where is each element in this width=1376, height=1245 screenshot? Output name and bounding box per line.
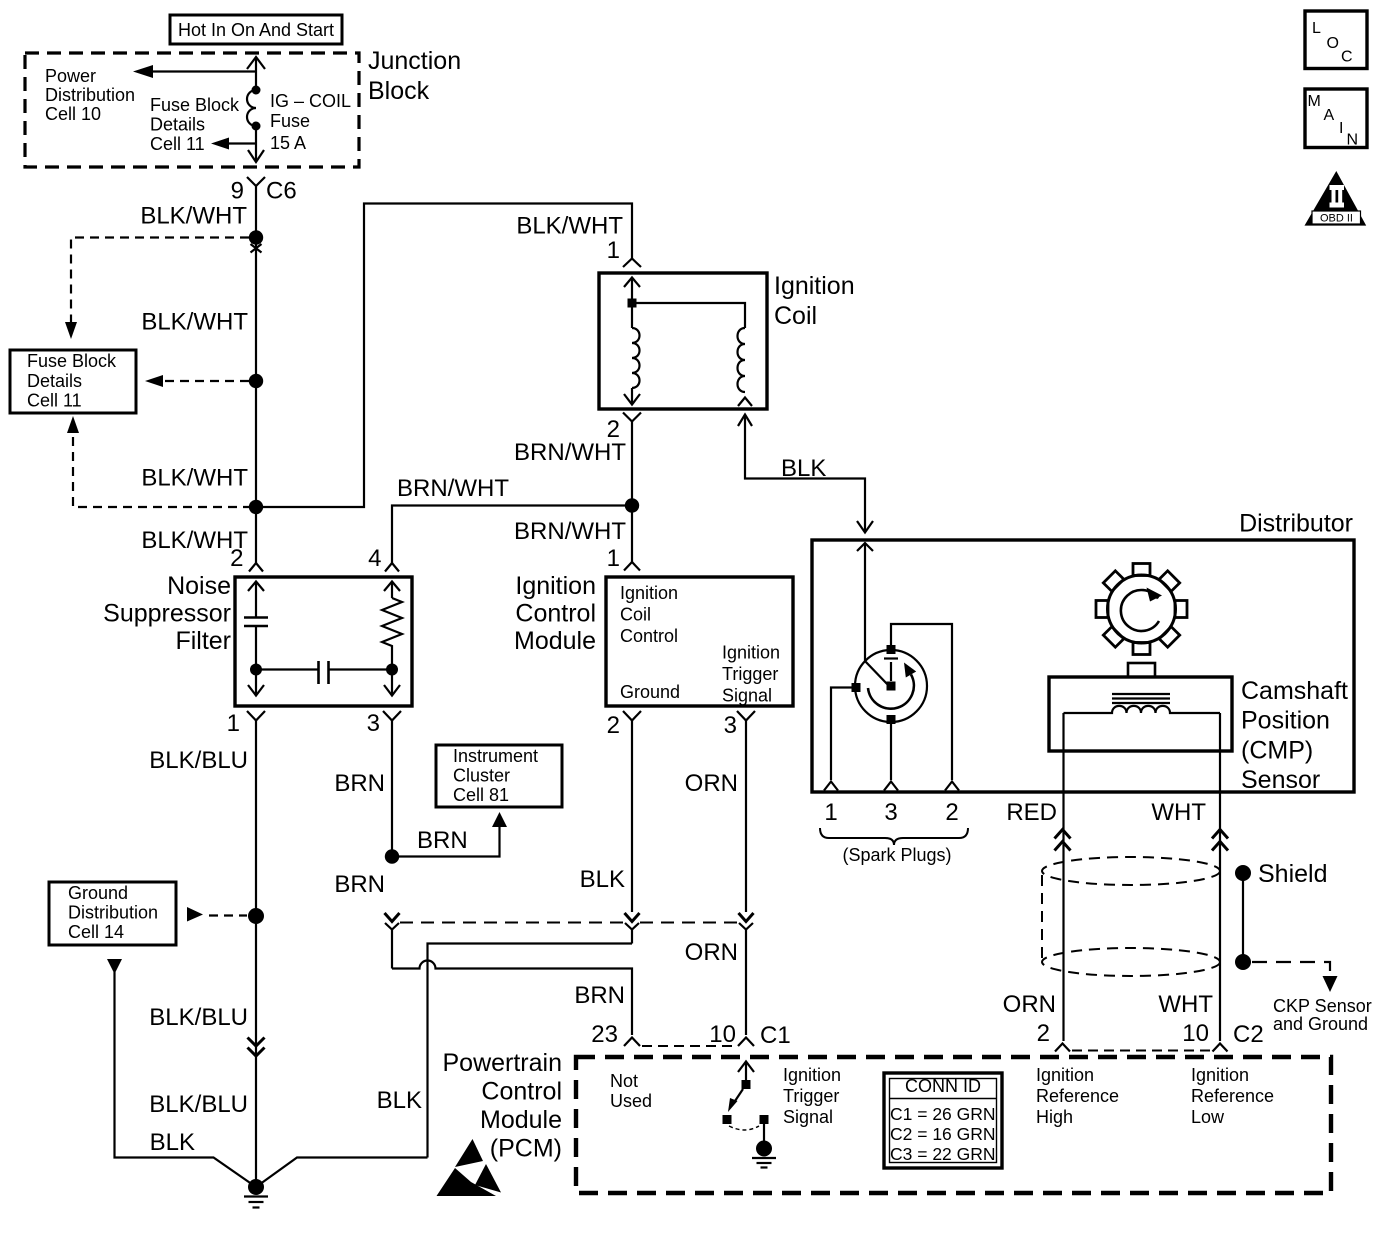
hot-feed label box "Hot In On And Start" (170, 15, 342, 44)
svg-text:BLK/WHT: BLK/WHT (516, 213, 623, 240)
svg-text:Position: Position (1241, 707, 1330, 735)
inline connector chevrons RED wire (1055, 830, 1071, 851)
PCM name (443, 1049, 563, 1163)
svg-text:CONN ID: CONN ID (905, 1076, 981, 1096)
PCM label Not Used (610, 1071, 652, 1111)
svg-text:Module: Module (480, 1106, 562, 1134)
node: BRN/WHT splice dot (625, 498, 639, 512)
ORN connector chevrons (739, 913, 754, 1035)
shield drain wire with dots (1235, 865, 1251, 970)
svg-text:Hot In On And Start: Hot In On And Start (178, 20, 334, 40)
svg-text:1: 1 (607, 237, 620, 264)
wire: main BLK/WHT vertical (255, 238, 257, 563)
wire: fuse output with down arrow inside junction block (248, 126, 264, 162)
wire: branch to Power Distribution (filled arrow left) (45, 65, 256, 124)
svg-text:Noise: Noise (167, 572, 231, 600)
dashed reference: to Fuse Block Details box (upper) (65, 238, 249, 340)
svg-text:O: O (1327, 35, 1339, 52)
svg-text:Powertrain: Powertrain (443, 1049, 563, 1077)
Ground Distribution reference box (49, 882, 176, 945)
inline connector chevrons on main BLK/BLU wire (248, 1038, 265, 1057)
ignition coil secondary output chevron (738, 398, 752, 407)
svg-text:Ignition: Ignition (722, 643, 780, 663)
svg-text:Module: Module (514, 627, 596, 655)
noise filter pin 1 (Y) (227, 710, 265, 1187)
svg-text:ORN: ORN (1003, 991, 1056, 1018)
PCM label Ignition Trigger Signal (783, 1065, 841, 1127)
ignition coil primary winding (632, 328, 640, 388)
ICM internal labels (620, 583, 780, 706)
svg-text:Ignition: Ignition (515, 572, 596, 600)
wire: BLK/WHT branch to ignition coil (riser) (256, 204, 632, 508)
noise filter pin 4 arrow (368, 545, 399, 572)
svg-text:Fuse Block: Fuse Block (150, 95, 240, 115)
svg-text:Block: Block (368, 77, 430, 105)
svg-text:BLK: BLK (580, 866, 625, 893)
rotor bottom contact + wire to spark 3 (887, 715, 896, 780)
rotor left contact + wire to spark 1 (831, 683, 861, 780)
svg-text:2: 2 (607, 712, 620, 739)
svg-text:Signal: Signal (722, 686, 772, 706)
svg-text:(PCM): (PCM) (490, 1135, 562, 1163)
svg-text:BRN: BRN (417, 827, 468, 854)
svg-text:15 A: 15 A (270, 133, 306, 153)
svg-text:BRN/WHT: BRN/WHT (514, 518, 626, 545)
junction block inner label Fuse Block Details Cell 11 (150, 95, 240, 154)
ICM name (514, 572, 596, 655)
ICM box (606, 577, 793, 706)
ignition coil primary wire with up arrow (624, 278, 745, 329)
svg-text:Sensor: Sensor (1241, 766, 1320, 794)
svg-text:C: C (1341, 49, 1353, 66)
wire: BLK from coil secondary to distributor (738, 415, 873, 533)
svg-text:Cluster: Cluster (453, 766, 510, 786)
svg-text:Control: Control (515, 600, 596, 628)
svg-text:Details: Details (27, 371, 82, 391)
node: splice dot at BLK/WHT to fuse block ref (249, 230, 263, 244)
svg-text:1: 1 (824, 799, 837, 826)
ground symbol (244, 1197, 268, 1208)
gear to CMP neck (1128, 663, 1155, 677)
connector C2 pin 2 (1037, 1020, 1070, 1052)
CMP name (1241, 677, 1348, 794)
connector C1 pin 10 (709, 1021, 790, 1049)
svg-text:Ground: Ground (68, 883, 128, 903)
svg-text:WHT: WHT (1158, 991, 1213, 1018)
svg-text:(CMP): (CMP) (1241, 736, 1313, 764)
svg-text:M: M (1308, 93, 1321, 110)
dashed reference from lower splice up into Fuse Block Details bottom (67, 416, 263, 514)
svg-text:3: 3 (724, 712, 737, 739)
ignition coil box (599, 273, 767, 409)
svg-text:Instrument: Instrument (453, 746, 538, 766)
Instrument Cluster reference box (436, 745, 562, 807)
svg-text:Cell 11: Cell 11 (27, 391, 82, 411)
svg-text:BRN/WHT: BRN/WHT (397, 475, 509, 502)
svg-text:1: 1 (607, 545, 620, 572)
spark plugs brace (820, 828, 968, 845)
svg-text:10: 10 (709, 1021, 736, 1048)
noise filter pin 3 (Y) (367, 710, 401, 857)
ignition coil name (774, 272, 855, 330)
svg-text:9: 9 (231, 178, 244, 205)
svg-text:CKP Sensor: CKP Sensor (1273, 996, 1372, 1016)
svg-text:Power: Power (45, 66, 96, 86)
spark plug chevrons at distributor bottom (824, 782, 959, 791)
svg-text:Trigger: Trigger (783, 1086, 839, 1106)
ICM pin 3 (Y) (724, 711, 755, 912)
svg-text:C3 = 22 GRN: C3 = 22 GRN (890, 1144, 996, 1164)
inline connector x-mark below splice (251, 244, 262, 253)
svg-text:C1: C1 (760, 1022, 791, 1049)
svg-text:BLK/WHT: BLK/WHT (141, 309, 248, 336)
junction block name (368, 47, 461, 105)
rotor center contact (887, 682, 896, 691)
PCM dashed enclosure (576, 1057, 1331, 1193)
rotor top contact + wire to spark 2 (884, 624, 952, 780)
svg-text:BRN: BRN (334, 770, 385, 797)
svg-text:Ignition: Ignition (783, 1065, 841, 1085)
svg-text:Used: Used (610, 1091, 652, 1111)
shield dashed left side (1041, 875, 1043, 958)
svg-text:C1 = 26 GRN: C1 = 26 GRN (890, 1104, 996, 1124)
svg-text:C2: C2 (1233, 1021, 1264, 1048)
node: BRN splice dot (385, 849, 399, 863)
svg-text:Filter: Filter (175, 627, 231, 655)
svg-text:Distributor: Distributor (1239, 510, 1353, 538)
dashed: shield to CKP sensor ground (arrow down) (1252, 962, 1338, 992)
svg-text:C6: C6 (266, 178, 297, 205)
LOC symbol box (1305, 11, 1367, 69)
node: splice dot with dashed arrow to Fuse Block Details right side (145, 374, 263, 388)
svg-text:Cell 11: Cell 11 (150, 134, 205, 154)
BRN connector chevrons (385, 913, 400, 969)
svg-text:Details: Details (150, 115, 205, 135)
junction block dashed enclosure (25, 53, 359, 167)
svg-text:BLK: BLK (377, 1087, 422, 1114)
svg-text:Junction: Junction (368, 47, 461, 75)
svg-text:WHT: WHT (1151, 799, 1206, 826)
svg-text:Coil: Coil (620, 605, 651, 625)
svg-text:2: 2 (945, 799, 958, 826)
connector C1 pin 23 (591, 1021, 640, 1048)
svg-text:Low: Low (1191, 1107, 1225, 1127)
noise filter internal node left (250, 664, 262, 676)
svg-text:Reference: Reference (1191, 1086, 1274, 1106)
dashed reference: ground distribution to main wire (187, 907, 264, 924)
svg-text:10: 10 (1182, 1020, 1209, 1047)
svg-text:Cell 14: Cell 14 (68, 922, 124, 942)
OBD II symbol (1305, 171, 1367, 226)
series capacitor between legs (256, 661, 392, 684)
svg-text:Distribution: Distribution (45, 85, 135, 105)
svg-text:Ignition: Ignition (620, 583, 678, 603)
rotor rotation arrow (868, 663, 916, 709)
inline connector chevrons WHT wire (1212, 830, 1228, 851)
svg-text:A: A (1324, 107, 1335, 124)
svg-text:2: 2 (230, 545, 243, 572)
wire: BRN branch up into Instrument Cluster (filled arrow up) (392, 812, 507, 857)
shield dashed cylinder top (1042, 857, 1220, 885)
svg-text:High: High (1036, 1107, 1073, 1127)
ground splice dot (248, 1179, 264, 1195)
CMP sensor lead wires (1064, 713, 1221, 1041)
svg-text:BLK/WHT: BLK/WHT (141, 465, 248, 492)
svg-text:Reference: Reference (1036, 1086, 1119, 1106)
connector C2 pin 10 (1182, 1020, 1263, 1052)
svg-text:Not: Not (610, 1071, 638, 1091)
svg-text:BLK/BLU: BLK/BLU (149, 1091, 248, 1118)
svg-text:Ground: Ground (620, 682, 680, 702)
noise filter pin 2 arrow (230, 545, 263, 572)
distributor box (812, 540, 1354, 792)
connector C2 dashed line (1072, 1050, 1210, 1052)
Fuse Block Details Cell 11 reference box (10, 350, 136, 413)
svg-text:I: I (1339, 120, 1343, 137)
capacitor C (shunt) (244, 618, 268, 696)
noise filter left branch: up arrow (248, 582, 264, 618)
svg-text:Control: Control (620, 626, 678, 646)
svg-text:3: 3 (367, 710, 380, 737)
timing gear (1096, 564, 1187, 655)
PCM label Ignition Reference Low (1191, 1065, 1274, 1127)
spark plug pin numbers 1 3 2 (824, 799, 958, 826)
CMP core bars (1112, 694, 1170, 703)
svg-text:Ignition: Ignition (1036, 1065, 1094, 1085)
svg-text:Trigger: Trigger (722, 664, 778, 684)
PCM ignition trigger switch (723, 1062, 777, 1168)
svg-text:Distribution: Distribution (68, 903, 158, 923)
BLK connector chevrons (625, 913, 640, 944)
noise suppressor filter box (235, 577, 412, 706)
svg-text:Camshaft: Camshaft (1241, 677, 1348, 705)
wire: feed from Hot box down into junction block (arrow up) (247, 57, 265, 90)
wire: BRN/WHT branch to noise filter pin 4 (392, 506, 632, 564)
svg-text:OBD II: OBD II (1320, 213, 1353, 225)
svg-text:ORN: ORN (685, 770, 738, 797)
svg-text:IG – COIL: IG – COIL (270, 91, 351, 111)
rotor circle (855, 650, 927, 722)
CONN ID table (884, 1073, 1002, 1168)
inline connector row (dashed) crossing BRN/BLK/ORN (400, 922, 738, 924)
MAIN symbol box (1305, 89, 1367, 149)
label CKP Sensor and Ground (1273, 996, 1372, 1034)
svg-text:(Spark Plugs): (Spark Plugs) (842, 845, 951, 865)
svg-text:2: 2 (1037, 1020, 1050, 1047)
svg-text:RED: RED (1006, 799, 1057, 826)
ignition coil pin 2 (Y) + wire down to ICM pin 1 (607, 413, 641, 563)
svg-text:Cell 81: Cell 81 (453, 785, 509, 805)
svg-text:BRN: BRN (574, 982, 625, 1009)
noise filter internal node right (386, 664, 398, 676)
svg-text:BRN: BRN (334, 871, 385, 898)
svg-text:Ignition: Ignition (1191, 1065, 1249, 1085)
svg-text:23: 23 (591, 1021, 618, 1048)
svg-text:Fuse: Fuse (270, 111, 310, 131)
shield dashed cylinder bottom (1042, 948, 1220, 976)
svg-text:Suppressor: Suppressor (103, 600, 231, 628)
svg-text:Cell 10: Cell 10 (45, 104, 101, 124)
svg-text:Ignition: Ignition (774, 272, 855, 300)
connector C6 pin 9 (Y symbol) (231, 177, 297, 238)
svg-text:ORN: ORN (685, 939, 738, 966)
svg-text:BRN/WHT: BRN/WHT (514, 439, 626, 466)
ignition coil secondary winding (738, 328, 746, 392)
CMP pickup coil (1064, 706, 1221, 713)
svg-text:Control: Control (481, 1078, 562, 1106)
svg-text:Coil: Coil (774, 302, 817, 330)
connector C1 dashed line (642, 1045, 736, 1047)
ground distribution drop wire (filled arrow down) (107, 959, 256, 1187)
wire: BLK jog left then down (428, 944, 633, 1158)
ignition coil pin 1 (607, 237, 641, 267)
CMP sensor box (1049, 677, 1232, 751)
noise suppressor filter name (103, 572, 231, 655)
svg-text:C2 = 16 GRN: C2 = 16 GRN (890, 1124, 996, 1144)
ICM pin 1 arrow (624, 562, 640, 571)
svg-text:N: N (1347, 132, 1359, 149)
noise filter down arrows at bottom (248, 685, 400, 696)
wire: BLK from PCM side joining ground (256, 1158, 428, 1188)
ignition coil primary down arrow to pin 2 (624, 388, 640, 405)
svg-text:Fuse Block: Fuse Block (27, 351, 117, 371)
svg-text:Shield: Shield (1258, 860, 1328, 888)
svg-text:BLK: BLK (781, 455, 826, 482)
svg-text:BLK: BLK (150, 1129, 195, 1156)
ESD sensitive device symbol (437, 1139, 502, 1196)
svg-text:BLK/BLU: BLK/BLU (149, 747, 248, 774)
distributor entry chevron + wire to rotor (857, 543, 889, 686)
ICM pin 2 (Y) (607, 711, 641, 912)
svg-text:4: 4 (368, 545, 381, 572)
svg-text:BLK/WHT: BLK/WHT (140, 203, 247, 230)
svg-text:BLK/BLU: BLK/BLU (149, 1004, 248, 1031)
fuse IG-COIL 15 A (247, 86, 351, 154)
wire: branch to Cell 11 (filled arrow left) (211, 138, 256, 150)
svg-text:1: 1 (227, 710, 240, 737)
resistor R (shunt) (382, 582, 402, 696)
wire: BRN jog right (hop over BLK) down to PCM pin 23 (392, 961, 632, 1036)
svg-text:3: 3 (884, 799, 897, 826)
svg-text:L: L (1312, 20, 1321, 37)
svg-text:and Ground: and Ground (1273, 1014, 1368, 1034)
PCM label Ignition Reference High (1036, 1065, 1119, 1127)
svg-text:Signal: Signal (783, 1107, 833, 1127)
